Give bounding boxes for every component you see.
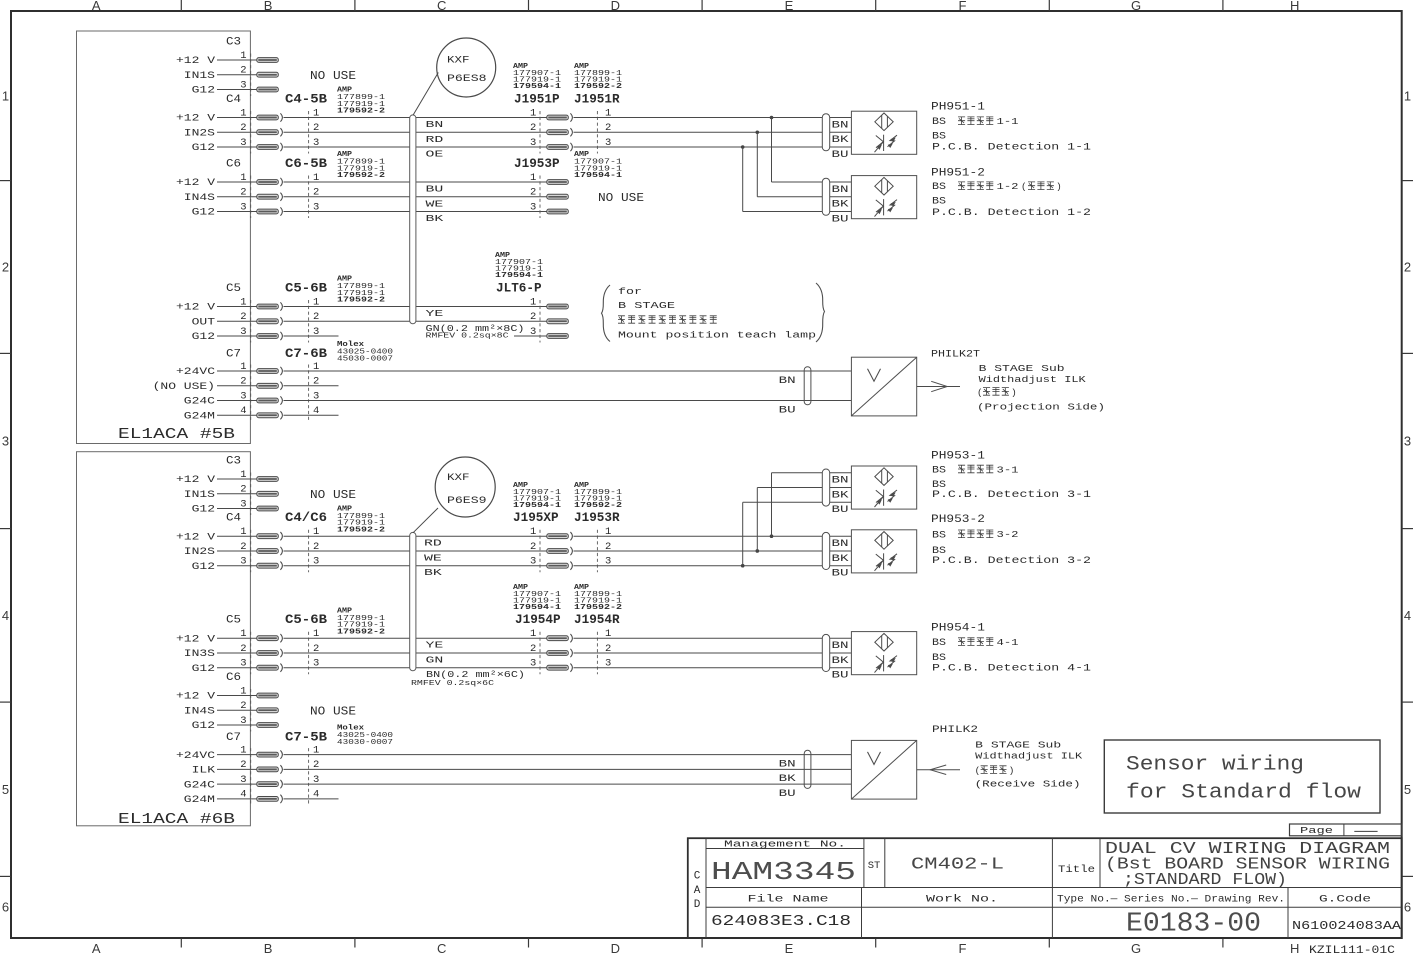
svg-text:J1954R: J1954R: [574, 613, 620, 627]
svg-text:1: 1: [240, 50, 246, 62]
svg-text:BK: BK: [424, 568, 443, 578]
C4 (#6B) pin 3 contact: [257, 562, 283, 570]
C5 (#5B) pin 2 signal OUT: [192, 311, 257, 328]
J1951P part numbers 177907-1: [513, 63, 562, 91]
svg-text:C6-5B: C6-5B: [285, 157, 328, 171]
svg-text:P.C.B. Detection 3-1: P.C.B. Detection 3-1: [932, 489, 1091, 500]
module EL1ACA #6B enclosure: [77, 452, 251, 828]
C4 (#6B) pin 1 signal +12 V: [176, 526, 257, 543]
J195XP part numbers 177907-1: [513, 482, 562, 510]
sensor lead label BK: [832, 199, 849, 210]
svg-text:PHILK2T: PHILK2T: [931, 349, 980, 360]
svg-text:BN: BN: [426, 120, 444, 130]
wire C6-5B pin 2 to cable: [284, 196, 410, 198]
C5-6B pin 3 number: [313, 658, 319, 670]
balloon callout KXF P6ES8: [413, 38, 496, 115]
C3 (#5B) pin 1 signal +12 V: [176, 50, 257, 67]
svg-text:B STAGE Sub: B STAGE Sub: [975, 740, 1061, 751]
svg-text:E: E: [785, 941, 794, 956]
svg-text:2: 2: [240, 187, 246, 199]
sensor lead label BK: [832, 655, 849, 666]
C7 (#6B) pin 4 signal G24M: [184, 789, 257, 806]
svg-text:4: 4: [1404, 608, 1411, 623]
J1954P pin 3 number: [530, 658, 536, 670]
C6-5B part numbers 177899-1: [337, 151, 386, 180]
C4/C6 pin 3 number: [313, 556, 319, 568]
J1951R pin 1 number: [605, 107, 611, 119]
svg-text:3: 3: [240, 658, 246, 670]
connector J1951R name: [574, 93, 620, 107]
C7 (#6B) pin 1 signal +24VC: [176, 745, 257, 762]
wire J1951R pin 2 to sensor PH951-1: [574, 131, 852, 133]
svg-text:P.C.B. Detection 4-1: P.C.B. Detection 4-1: [932, 663, 1091, 674]
C6 (#6B) NO USE note: [310, 705, 356, 718]
C5 (#5B) pin 2 contact: [257, 317, 283, 325]
C7-6B pin 2 number: [313, 376, 319, 388]
C4/C6 part numbers 177899-1: [337, 505, 386, 534]
J1954R pin 3 number: [605, 658, 611, 670]
connector J1954P boundary dashed line: [539, 632, 541, 675]
svg-text:3: 3: [530, 201, 536, 213]
svg-text:G24M: G24M: [184, 795, 215, 806]
svg-text:+12 V: +12 V: [176, 56, 216, 67]
svg-text:179592-2: 179592-2: [337, 628, 385, 636]
svg-text:Widthadjust ILK: Widthadjust ILK: [979, 374, 1086, 385]
sensor PH951-1 lens icon: [875, 113, 893, 131]
svg-text:B: B: [264, 0, 273, 13]
J1951P pin 1 number: [530, 107, 536, 119]
harness C5-6B boundary dashed line: [308, 632, 310, 675]
svg-text:C4/C6: C4/C6: [285, 511, 327, 525]
svg-text:E0183-00: E0183-00: [1126, 910, 1261, 940]
svg-text:J195XP: J195XP: [513, 511, 559, 525]
C7 (#5B) pin 4 signal G24M: [184, 405, 257, 422]
wire cable to J1951P pin 2: [416, 131, 547, 133]
J1953P part numbers 177907-1: [574, 151, 623, 180]
JLT6-P pin 2 contact: [547, 319, 569, 324]
J1953R pin 1 number: [605, 526, 611, 538]
svg-text:D: D: [694, 899, 701, 911]
connector C3 (#6B) boundary dashed line: [250, 473, 252, 516]
svg-text:BK: BK: [779, 773, 796, 784]
C4 (#5B) pin 3 contact: [257, 143, 283, 151]
cable type label RMFEV 0.2sq x 6C: [411, 680, 495, 688]
svg-text:1: 1: [2, 89, 9, 104]
svg-text:J1953P: J1953P: [514, 157, 560, 171]
PHILK2 lead label BU: [779, 788, 796, 799]
svg-text:5: 5: [1404, 782, 1411, 797]
svg-text:1: 1: [530, 526, 536, 538]
svg-text:BN: BN: [779, 758, 796, 769]
svg-text:File Name: File Name: [748, 894, 829, 906]
connector J1951P boundary dashed line: [539, 111, 541, 154]
connector J1951P name: [514, 93, 560, 107]
wire J1953R pin 2 to sensor PH953-2: [574, 550, 852, 552]
svg-text:A: A: [92, 0, 101, 13]
wire cable to J1954P pin 3: [416, 667, 547, 669]
svg-text:4: 4: [240, 789, 246, 801]
sensor PH951-2 emitter/receiver icon: [875, 199, 898, 217]
connector C3 (#5B) name: [226, 37, 241, 49]
sensor lead label BN: [832, 640, 849, 651]
C7 (#6B) pin 4 contact: [257, 795, 283, 804]
svg-text:ILK: ILK: [192, 766, 217, 777]
J1954P pin 2 contact: [547, 649, 573, 657]
balloon callout KXF P6ES9: [413, 457, 495, 533]
connector C7 (#5B) name: [226, 348, 241, 360]
J1953P NO USE note: [598, 192, 644, 205]
svg-text:C: C: [437, 941, 446, 956]
svg-text:3: 3: [530, 326, 536, 338]
svg-text:BN: BN: [779, 375, 796, 386]
junction node on wire 3 (PH953): [741, 564, 745, 568]
wire cable to JLT6-P pin 2: [416, 320, 547, 322]
svg-text:2: 2: [240, 484, 246, 496]
C5 (#6B) pin 3 signal G12: [192, 658, 257, 675]
C7-6B pin 1 number: [313, 361, 319, 373]
svg-text:3: 3: [530, 658, 536, 670]
svg-text:4: 4: [240, 405, 246, 417]
svg-text:C3: C3: [226, 456, 241, 468]
connector C4 (#6B) name: [226, 513, 241, 525]
svg-text:Widthadjust ILK: Widthadjust ILK: [975, 751, 1082, 762]
svg-text:C7-5B: C7-5B: [285, 731, 328, 745]
svg-text:PH953-2: PH953-2: [931, 514, 985, 526]
svg-text:IN1S: IN1S: [184, 71, 215, 82]
svg-text:BN: BN: [832, 640, 849, 651]
wire J1951R pin 3 to sensor PH951-1: [574, 146, 852, 148]
C4 (#6B) pin 2 contact: [257, 547, 283, 555]
C7-5B pin 2 number: [313, 759, 319, 771]
J1951R pin 3 number: [605, 137, 611, 149]
JLT6-P pin 1 contact: [547, 304, 569, 309]
svg-text:J1951P: J1951P: [514, 93, 560, 107]
svg-text:179592-2: 179592-2: [337, 108, 385, 116]
svg-text:OE: OE: [426, 150, 444, 160]
svg-text:179594-1: 179594-1: [495, 272, 544, 280]
C6 (#5B) pin 3 contact: [257, 207, 283, 215]
svg-text:(: (: [975, 765, 981, 776]
C3 (#5B) pin 3 signal G12: [192, 79, 257, 96]
svg-text:BS: BS: [932, 465, 946, 476]
connector C7 (#6B) name: [226, 732, 241, 744]
svg-text:3: 3: [240, 137, 246, 149]
sensor PH951-1 emitter/receiver icon: [875, 135, 898, 153]
C4 (#6B) pin 2 signal IN2S: [184, 541, 257, 558]
wire C5-6B(#6B) pin 3 to cable: [284, 667, 410, 669]
connector JLT6-P name: [496, 282, 542, 296]
wire stub C7(#6B) pin 4: [284, 798, 339, 800]
svg-text:1: 1: [240, 685, 246, 697]
svg-text:GN: GN: [426, 656, 444, 666]
J1953R part numbers 177899-1: [574, 482, 623, 510]
wire stub C7 pin 4: [284, 414, 339, 416]
sensor lead label BN: [832, 475, 849, 486]
J1953R pin 3 number: [605, 556, 611, 568]
connector C5 (#5B) boundary dashed line: [250, 300, 252, 343]
junction node on wire 2 (PH953): [756, 549, 760, 553]
svg-text:5: 5: [2, 782, 9, 797]
wire C4-5B pin 3 to cable: [284, 146, 410, 148]
wire color label YE: [426, 641, 444, 651]
wire cable to J1953P pin 2: [416, 196, 547, 198]
connector J195XP name: [513, 511, 559, 525]
C3 (#6B) pin 2 contact: [257, 491, 279, 496]
svg-text:P.C.B. Detection 3-2: P.C.B. Detection 3-2: [932, 555, 1091, 566]
J195XP pin 3 number: [530, 556, 536, 568]
sensor PH953-1 lens icon: [875, 468, 893, 486]
wire C4/C6 pin 3 to cable: [284, 565, 410, 567]
sensor PH953-1 emitter/receiver icon: [875, 490, 898, 508]
svg-text:HAM3345: HAM3345: [711, 857, 856, 887]
svg-text:C4: C4: [226, 513, 241, 525]
JLT6-P pin 3 number: [530, 326, 536, 338]
svg-text:C7: C7: [226, 732, 241, 744]
svg-text:BK: BK: [832, 134, 849, 145]
sensor PH953-1 annotation text: [931, 451, 1091, 501]
svg-text:Page: Page: [1300, 825, 1333, 836]
JLT6-P pin 3 contact: [547, 334, 569, 339]
svg-text:IN1S: IN1S: [184, 490, 215, 501]
cable grommet: [822, 178, 829, 215]
C4 (#5B) pin 1 signal +12 V: [176, 107, 257, 124]
C4-5B pin 3 number: [313, 137, 319, 149]
wire C7(#6B) pin 1 to PHILK2: [284, 754, 852, 756]
svg-text:3: 3: [240, 201, 246, 213]
sensor lead label BU: [832, 504, 849, 515]
C4-5B part numbers 177899-1: [337, 87, 386, 116]
C3 (#6B) pin 3 contact: [257, 506, 279, 511]
C5 (#5B) pin 3 signal G12: [192, 326, 257, 343]
C5 (#5B) pin 3 contact: [257, 332, 283, 340]
svg-text:3: 3: [240, 715, 246, 727]
svg-text:1: 1: [240, 469, 246, 481]
C5 (#6B) pin 1 signal +12 V: [176, 628, 257, 645]
svg-text:C3: C3: [226, 37, 241, 49]
C6 (#5B) pin 1 contact: [257, 178, 283, 186]
wire stub C5 pin 3: [284, 335, 339, 337]
svg-text:PHILK2: PHILK2: [932, 725, 978, 736]
J1953P pin 2 number: [530, 187, 536, 199]
wire C4-5B pin 2 to cable: [284, 131, 410, 133]
svg-text:Title: Title: [1058, 864, 1095, 876]
sensor lead label BK: [832, 553, 849, 564]
svg-text:1: 1: [240, 745, 246, 757]
svg-text:624083E3.C18: 624083E3.C18: [711, 914, 851, 930]
svg-text:IN3S: IN3S: [184, 649, 215, 660]
photoelectric sensor PH953-2 body: [851, 530, 916, 573]
PHILK2T lead label BN: [779, 375, 796, 386]
C3 (#5B) pin 3 contact: [257, 87, 279, 92]
svg-text:H: H: [1290, 0, 1299, 13]
svg-text:C5-6B: C5-6B: [285, 613, 328, 627]
C6 (#5B) pin 2 contact: [257, 193, 283, 201]
svg-text:NO USE: NO USE: [310, 70, 356, 83]
title block texts: [694, 839, 1402, 940]
wire stub C7 pin 2: [284, 385, 339, 387]
PHILK2 lead label BK: [779, 773, 796, 784]
wire color label BK: [424, 568, 443, 578]
svg-text:G12: G12: [192, 143, 215, 154]
C7 (#5B) pin 3 signal G24C: [184, 390, 257, 407]
svg-text:for Standard flow: for Standard flow: [1126, 782, 1361, 805]
J1953P pin 1 number: [530, 172, 536, 184]
connector C6 (#6B) boundary dashed line: [250, 689, 252, 732]
wire color label BN: [426, 120, 444, 130]
svg-text:179594-1: 179594-1: [513, 502, 562, 510]
wire color label BN and cable size (6C): [426, 670, 525, 680]
connector C3 (#5B) boundary dashed line: [250, 54, 252, 97]
C4 (#6B) pin 3 signal G12: [192, 556, 257, 573]
wire color label WE: [426, 199, 444, 209]
svg-text:F: F: [959, 941, 967, 956]
svg-text:+12 V: +12 V: [176, 178, 216, 189]
wire J1953R pin 3 to sensor PH953-2: [574, 565, 852, 567]
svg-text:J1954P: J1954P: [515, 613, 561, 627]
J1954R part numbers 177899-1: [574, 584, 623, 612]
C6-5B pin 1 number: [313, 172, 319, 184]
C4 (#5B) pin 3 signal G12: [192, 137, 257, 154]
page number box: [1290, 824, 1402, 836]
svg-text:C6: C6: [226, 159, 241, 171]
harness C7-5B boundary dashed line: [308, 748, 310, 805]
svg-text:BU: BU: [832, 670, 849, 681]
svg-text:6: 6: [2, 900, 9, 915]
C7 (#6B) pin 2 contact: [257, 765, 283, 774]
C3 (#6B) pin 3 signal G12: [192, 498, 257, 515]
svg-text:+24VC: +24VC: [176, 367, 215, 378]
C4/C6 pin 1 number: [313, 526, 319, 538]
svg-text:BU: BU: [832, 149, 849, 160]
svg-text:4: 4: [2, 608, 9, 623]
C7-5B pin 1 number: [313, 745, 319, 757]
harness C4-5B boundary dashed line: [308, 111, 310, 154]
svg-text:A: A: [694, 885, 701, 897]
svg-text:2: 2: [240, 643, 246, 655]
svg-text:RMFEV 0.2sq×8C: RMFEV 0.2sq×8C: [426, 332, 510, 340]
svg-text:G12: G12: [192, 332, 215, 343]
C6-5B pin 3 number: [313, 201, 319, 213]
PHILK2 output signal arrow: [917, 765, 960, 775]
wire color label YE: [426, 309, 444, 319]
wire cable to J1954P pin 1: [416, 637, 547, 639]
photoelectric sensor PH954-1 body: [851, 632, 916, 675]
wire C5-6B(#6B) pin 1 to cable: [284, 637, 410, 639]
sensor PH953-2 emitter/receiver icon: [875, 553, 898, 571]
svg-text:): ): [1056, 181, 1062, 192]
svg-text:BS: BS: [932, 116, 946, 127]
svg-text:179592-2: 179592-2: [337, 526, 385, 534]
branch wire up to PH953-1 lead 1: [772, 473, 852, 536]
svg-text:D: D: [611, 941, 620, 956]
svg-text:(Projection Side): (Projection Side): [977, 401, 1105, 412]
C6 (#5B) pin 1 signal +12 V: [176, 172, 257, 189]
svg-text:4-1: 4-1: [997, 637, 1019, 648]
svg-text:IN2S: IN2S: [184, 547, 215, 558]
sensor PH953-2 annotation text: [931, 514, 1091, 566]
svg-text:1: 1: [240, 628, 246, 640]
wire C4/C6 pin 1 to cable: [284, 535, 410, 537]
amplifier PHILK2 annotation text: [932, 725, 1083, 790]
sensor PH954-1 lens icon: [875, 633, 893, 651]
connector J1953R name: [574, 511, 620, 525]
connector C5 (#6B) name: [226, 615, 241, 627]
connector J195XP boundary dashed line: [539, 530, 541, 573]
C3 (#6B) pin 2 signal IN1S: [184, 484, 257, 501]
C7-6B pin 4 number: [313, 405, 319, 417]
connector C7 (#5B) boundary dashed line: [250, 365, 252, 422]
C5 (#6B) pin 2 contact: [257, 649, 283, 657]
svg-text:BS: BS: [932, 130, 946, 141]
C6 (#6B) pin 3 contact: [257, 723, 279, 728]
J1953R pin 2 number: [605, 541, 611, 553]
interlock amplifier PHILK2T grommet: [804, 367, 811, 405]
J1951R pin 2 number: [605, 122, 611, 134]
svg-text:179592-2: 179592-2: [574, 83, 622, 91]
C4-5B pin 2 number: [313, 122, 319, 134]
svg-text:3: 3: [240, 556, 246, 568]
svg-text:BK: BK: [832, 553, 849, 564]
J1951P pin 2 number: [530, 122, 536, 134]
harness connector C5-6B label: [285, 613, 328, 627]
C7 (#6B) pin 3 contact: [257, 780, 283, 788]
note kanji line (mount position teach lamp): [618, 316, 717, 323]
svg-text:1-1: 1-1: [997, 116, 1019, 127]
svg-text:179592-2: 179592-2: [337, 297, 385, 305]
J1954R pin 1 number: [605, 628, 611, 640]
svg-text:YE: YE: [426, 641, 444, 651]
svg-text:179592-2: 179592-2: [574, 502, 622, 510]
svg-text:Mount position teach lamp: Mount position teach lamp: [618, 329, 816, 340]
svg-text:IN2S: IN2S: [184, 128, 215, 139]
photoelectric sensor PH951-1 body: [851, 111, 916, 154]
junction node on wire 1 (PH953): [770, 534, 774, 538]
sensor lead label BN: [832, 184, 849, 195]
J1954P part numbers 177907-1: [513, 584, 562, 612]
sensor PH951-1 annotation text: [931, 102, 1091, 153]
svg-text:3: 3: [2, 434, 9, 449]
svg-text:YE: YE: [426, 309, 444, 319]
JLT6-P pin 2 number: [530, 311, 536, 323]
J1953P pin 3 number: [530, 201, 536, 213]
C5-6B pin 3 number: [313, 326, 319, 338]
C7 (#5B) pin 1 contact: [257, 367, 283, 375]
C7 (#6B) pin 1 contact: [257, 750, 283, 758]
svg-text:P.C.B. Detection 1-1: P.C.B. Detection 1-1: [932, 142, 1091, 153]
wire C5-6B(#6B) pin 2 to cable: [284, 652, 410, 654]
branch wire up to PH953-1 lead 2: [757, 488, 851, 551]
svg-text:IN4S: IN4S: [184, 706, 215, 717]
svg-text:2: 2: [240, 759, 246, 771]
svg-text:1: 1: [1404, 89, 1411, 104]
svg-text:3: 3: [240, 390, 246, 402]
wire C4-5B pin 1 to cable: [284, 117, 410, 119]
svg-text:BU: BU: [779, 788, 796, 799]
svg-text:179592-2: 179592-2: [337, 172, 385, 180]
wire C7 pin 3 (G24C) to PHILK2T BU: [284, 400, 852, 402]
svg-text:C4: C4: [226, 94, 241, 106]
svg-text:2: 2: [530, 643, 536, 655]
cable sheath KXF P6ES8 (8C): [410, 115, 416, 324]
wire color label BU: [426, 185, 444, 195]
svg-text:EL1ACA #6B: EL1ACA #6B: [118, 811, 235, 828]
branch wire down to PH951-2 lead 3: [743, 147, 852, 212]
C5 (#6B) pin 1 contact: [257, 634, 283, 642]
connector J1954R boundary dashed line: [596, 632, 598, 675]
svg-text:2: 2: [240, 122, 246, 134]
svg-text:179592-2: 179592-2: [574, 604, 622, 612]
wire cable to J1953P pin 3: [416, 211, 547, 213]
